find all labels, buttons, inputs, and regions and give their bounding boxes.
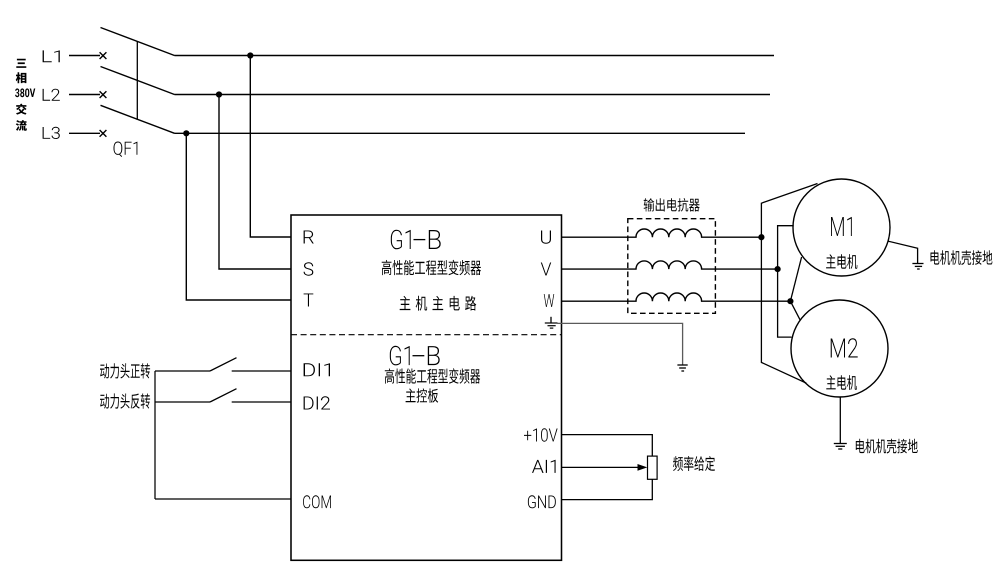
potentiometer RP1 body	[648, 456, 658, 479]
junction L1 drop	[247, 52, 253, 58]
wire W output with reactor coil	[562, 293, 791, 301]
output reactor label 输出电抗器	[644, 198, 700, 212]
label 动力头正转	[100, 363, 150, 378]
label M1 电机机壳接地	[931, 250, 993, 265]
wire V output with reactor coil	[562, 261, 778, 269]
junction L3 drop	[183, 130, 189, 136]
node L1 label	[43, 50, 60, 62]
motor M1 label 主电机	[826, 254, 857, 269]
pin R label	[304, 231, 314, 244]
wire M1 case to earth	[888, 241, 917, 263]
pin AI1 label	[532, 460, 556, 473]
wire S2 to DI2	[232, 401, 291, 403]
node L2 label	[43, 89, 60, 101]
pin GND label	[528, 495, 556, 508]
pin S label	[304, 262, 314, 275]
junction L2 drop	[216, 91, 222, 97]
potentiometer RP1 label 频率给定	[673, 456, 715, 471]
breaker QF1 pole3 contact x	[100, 130, 107, 137]
pin DI1 label	[304, 363, 330, 376]
wire GND to pot bottom	[562, 479, 653, 499]
inverter U1 control subtitle 主控板	[406, 388, 439, 402]
inverter U1 title G1 of G1-B	[391, 230, 411, 250]
output reactor dashed enclosure	[628, 219, 716, 314]
breaker QF1 label	[114, 142, 138, 158]
pin U label	[541, 231, 551, 244]
wire PE to earth	[557, 323, 683, 364]
pin COM label	[303, 495, 331, 508]
junction U to motors	[758, 234, 764, 240]
wire bus to COM	[155, 498, 291, 500]
switch S2 left wire	[155, 401, 210, 403]
node 三相380V交流 source label 380V	[15, 88, 35, 97]
motor M2 label	[831, 338, 858, 357]
breaker QF1 pole1 contact x	[100, 52, 107, 59]
breaker QF1 pole3 blade	[101, 105, 175, 133]
ground M2 case	[834, 444, 847, 450]
motor M2 label 主电机	[826, 375, 857, 390]
breaker QF1 pole2 blade	[101, 67, 175, 95]
wire L2 rail	[175, 94, 771, 96]
wire L1 rail	[175, 55, 775, 57]
inverter U1 PE earth symbol	[545, 317, 558, 328]
wire L2 input	[69, 94, 100, 96]
breaker QF1 pole1 blade	[101, 28, 175, 56]
inverter U1 subtitle 主机主电路	[400, 296, 477, 311]
wire S1 to DI1	[232, 370, 291, 372]
wire T drop	[186, 133, 291, 300]
potentiometer RP1 wiper arrow	[638, 464, 648, 471]
wire R drop	[250, 56, 291, 238]
node 三相380V交流 source label char 交	[16, 104, 27, 115]
wire W branch to M2	[790, 301, 800, 320]
pin T label	[304, 294, 314, 307]
inverter U1 box outline	[291, 215, 562, 560]
label 动力头反转	[100, 393, 150, 408]
breaker QF1 pole2 contact x	[100, 91, 107, 98]
pin +10V label	[524, 428, 558, 441]
wire L1 input	[69, 55, 100, 57]
motor M2 circle	[791, 300, 888, 397]
inverter U1 control subtitle 高性能工程型变频器	[385, 368, 480, 383]
wire M2 case to earth	[839, 397, 841, 443]
junction W to motors	[787, 298, 793, 304]
wire AI1 to pot wiper	[562, 466, 641, 468]
inverter U1 title B of G1-B	[429, 230, 441, 249]
node 三相380V交流 source label char 相	[16, 72, 27, 83]
breaker QF1 tie bar	[136, 42, 138, 120]
inverter U1 control title B of G1-B	[428, 346, 440, 365]
wire L3 input	[69, 132, 100, 134]
motor M1 circle	[793, 179, 890, 276]
inverter U1 control title G1 of G1-B	[390, 346, 410, 366]
switch S1 left wire	[155, 370, 210, 372]
pin W label	[544, 294, 554, 307]
pin DI2 label	[304, 396, 330, 409]
pin V label	[541, 263, 551, 276]
inverter U1 subtitle 高性能工程型变频器	[382, 260, 481, 275]
wire W branch to M1	[790, 257, 801, 301]
inverter U1 title dash of G1-B	[414, 239, 426, 241]
node 三相380V交流 source label char 流	[16, 120, 27, 131]
switch S1 blade	[210, 358, 237, 371]
inverter U1 section divider	[291, 334, 562, 336]
node 三相380V交流 source label char 三	[16, 59, 26, 68]
motor M1 label	[831, 217, 852, 236]
wire L3 rail	[175, 132, 746, 134]
wire V branch to M1 and M2	[778, 226, 794, 337]
wire U branch to M1 and M2	[761, 184, 817, 384]
ground below reactor	[677, 365, 687, 371]
wire control bus	[154, 371, 156, 499]
inverter U1 control title dash of G1-B	[413, 355, 425, 357]
junction V to motors	[775, 266, 781, 272]
wire U output with reactor coil	[562, 229, 762, 237]
ground M1 case	[912, 264, 923, 270]
wire S drop	[219, 95, 291, 270]
switch S2 blade	[210, 389, 237, 402]
wire +10V to pot top	[562, 435, 653, 457]
node L3 label	[43, 127, 60, 139]
label M2 电机机壳接地	[856, 439, 918, 454]
